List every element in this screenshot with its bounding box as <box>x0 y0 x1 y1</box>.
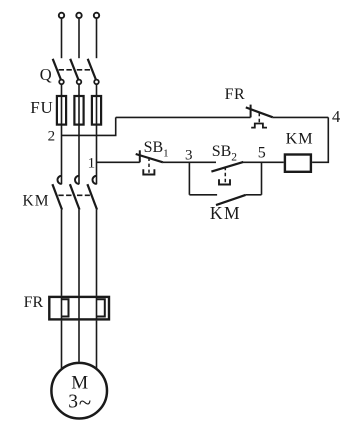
FR contact thermal element symbol <box>251 124 267 128</box>
wire L3 terminal to Q <box>96 19 98 58</box>
svg-text:Q: Q <box>40 65 52 84</box>
wire L1 KM to FR heater <box>61 210 63 296</box>
svg-text:FR: FR <box>24 294 44 311</box>
FR heater phase 2 through-wire <box>78 296 80 321</box>
wire L2 KM to FR heater <box>78 210 80 296</box>
FR contact movable blade <box>246 107 273 117</box>
contactor KM pole 2 fixed contact arc <box>75 176 79 184</box>
contact KM auxiliary movable blade <box>216 195 246 205</box>
pushbutton SB2 button cap <box>219 179 230 184</box>
fuse FU 1 through-wire <box>61 94 63 125</box>
fuse FU 2 body <box>74 96 83 125</box>
svg-text:FR: FR <box>225 86 246 103</box>
switch Q linkage (dashed) <box>59 69 90 71</box>
wire L1 Q to FU <box>61 84 63 94</box>
svg-text:4: 4 <box>332 107 340 126</box>
wire L3 Q to FU <box>96 84 98 94</box>
wire node 1 to SB1 <box>97 161 140 163</box>
svg-text:KM: KM <box>23 193 50 210</box>
wire L2 terminal to Q <box>78 19 80 58</box>
contactor KM pole 3 fixed contact arc <box>93 176 97 184</box>
thermal relay FR heater box <box>49 297 109 320</box>
svg-text:1: 1 <box>88 155 96 171</box>
wire SB2 to KM coil through node 5 <box>243 161 283 163</box>
wire node 2 to step <box>62 117 116 135</box>
wire FR contact to right rail <box>273 116 329 118</box>
wire SB1 to SB2 through node 3 <box>163 161 216 163</box>
pushbutton SB2 movable blade <box>211 162 243 172</box>
switch Q pole 3 hinge circle <box>94 80 99 85</box>
wire L2 FR heater to motor <box>78 321 80 362</box>
fuse FU 3 through-wire <box>96 94 98 125</box>
wire right rail down to coil <box>312 117 328 162</box>
svg-text:3: 3 <box>185 147 193 163</box>
wire L1 terminal to Q <box>61 19 63 58</box>
wire L2 FU to KM contact <box>78 125 80 184</box>
contactor KM pole 1 blade <box>52 184 62 209</box>
pushbutton SB1 actuator link (dashed) <box>148 158 150 173</box>
contactor KM pole 1 fixed contact arc <box>58 176 62 184</box>
contactor KM pole 2 blade <box>70 184 80 209</box>
FR contact actuator link (dashed) <box>258 113 260 124</box>
switch Q pole 2 hinge circle <box>77 80 82 85</box>
fuse FU 1 body <box>57 96 66 125</box>
wire node 3 branch down <box>188 162 190 195</box>
FR heater element loop on phase 3 <box>97 299 105 316</box>
wire L1 FU to KM contact <box>61 125 63 184</box>
wire L1 FR heater to motor <box>61 321 63 369</box>
svg-text:5: 5 <box>258 145 266 162</box>
wire L3 FR heater to motor <box>96 321 98 368</box>
terminal L2 <box>76 13 81 18</box>
FR heater phase 1 through-wire <box>61 296 63 321</box>
switch Q pole 2 blade <box>70 59 78 80</box>
switch Q pole 3 blade <box>88 59 96 80</box>
wire L3 FU to KM contact <box>96 125 98 184</box>
switch Q pole 1 hinge circle <box>59 80 64 85</box>
wire L3 KM to FR heater <box>96 210 98 296</box>
FR heater element loop on phase 1 <box>62 299 69 316</box>
coil KM body <box>285 155 311 172</box>
switch Q pole 1 blade <box>53 59 61 80</box>
svg-text:SB2: SB2 <box>212 143 238 163</box>
terminal L3 <box>94 13 99 18</box>
svg-text:KM: KM <box>286 129 314 148</box>
pushbutton SB1 movable blade <box>136 154 163 162</box>
pushbutton SB1 button cap <box>143 169 154 174</box>
pushbutton SB2 actuator link (dashed) <box>224 167 226 183</box>
FR contact fixed-terminal tick <box>250 105 252 118</box>
wire node 3 branch to KM aux contact <box>189 194 217 196</box>
fuse FU 2 through-wire <box>78 94 80 125</box>
svg-text:FU: FU <box>30 98 53 117</box>
contactor KM linkage (dashed) <box>58 194 90 196</box>
svg-text:2: 2 <box>48 129 56 145</box>
wire node 5 branch down <box>261 162 263 195</box>
svg-text:3: 3 <box>68 391 78 412</box>
contactor KM pole 3 blade <box>87 184 97 209</box>
wire top rail to FR contact <box>116 116 251 118</box>
terminal L1 <box>59 13 64 18</box>
wire KM aux contact to node 5 branch <box>246 194 262 196</box>
motor M body circle <box>51 363 107 419</box>
wire L2 Q to FU <box>78 84 80 94</box>
FR heater phase 3 through-wire <box>96 296 98 321</box>
fuse FU 3 body <box>92 96 101 125</box>
svg-text:KM: KM <box>210 203 241 223</box>
svg-text:~: ~ <box>79 390 91 415</box>
pushbutton SB1 fixed-terminal tick <box>139 150 141 162</box>
svg-text:SB1: SB1 <box>144 139 169 159</box>
